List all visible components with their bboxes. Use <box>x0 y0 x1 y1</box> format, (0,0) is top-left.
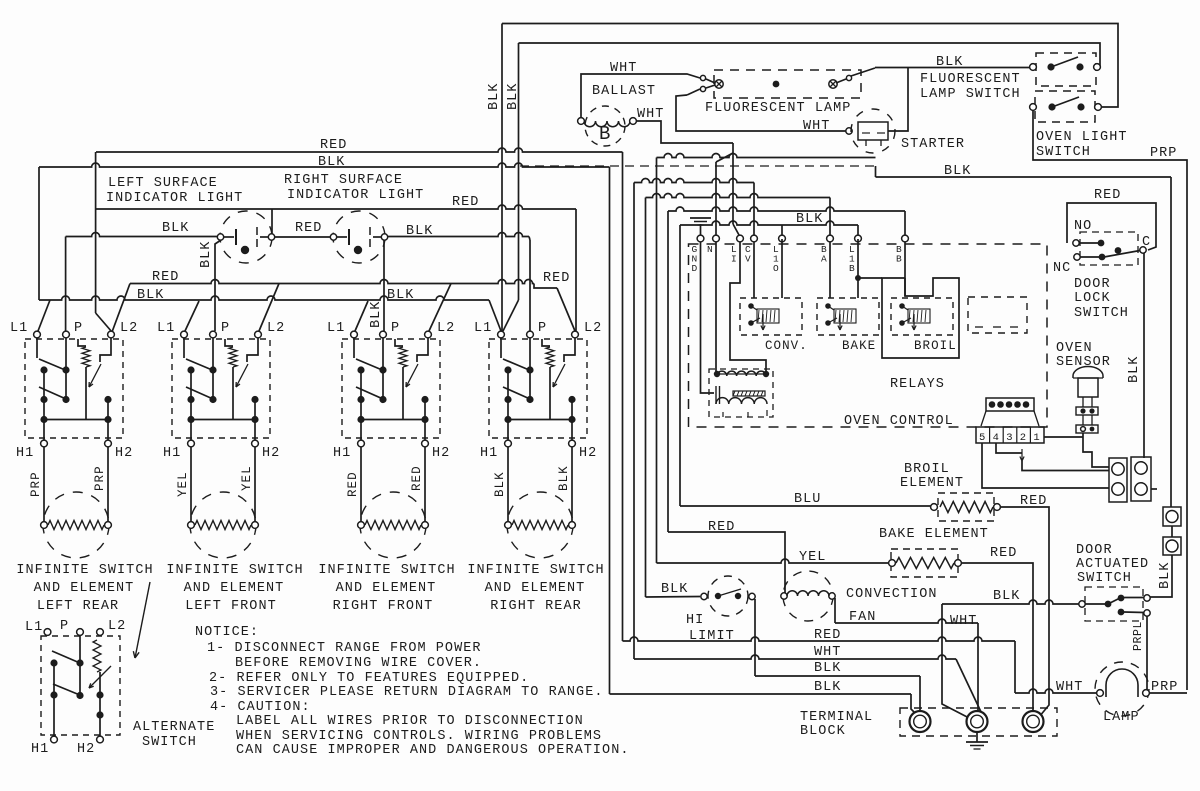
left long verticals <box>609 167 611 694</box>
svg-text:RED: RED <box>295 221 322 236</box>
svg-text:DOOR: DOOR <box>1074 277 1111 292</box>
svg-text:BLK: BLK <box>814 680 841 695</box>
svg-text:L1: L1 <box>157 321 175 336</box>
svg-text:SWITCH: SWITCH <box>1074 306 1129 321</box>
svg-text:TERMINAL: TERMINAL <box>800 710 873 725</box>
svg-text:BLK: BLK <box>387 288 414 303</box>
wire BLK from C down to connector <box>1143 253 1145 458</box>
lamp left pin <box>700 75 705 80</box>
svg-text:WHT: WHT <box>1056 680 1083 695</box>
wire RED from broil element down to stud3 <box>1000 507 1049 717</box>
oven lamp <box>1095 662 1149 716</box>
wire BLK vertical x=1171 down right side <box>1170 177 1172 507</box>
svg-text:RELAYS: RELAYS <box>890 377 945 392</box>
svg-text:LEFT FRONT: LEFT FRONT <box>185 599 277 614</box>
svg-text:B: B <box>896 254 902 265</box>
svg-text:AND ELEMENT: AND ELEMENT <box>336 581 437 596</box>
wire WHT to lamp <box>1014 641 1016 693</box>
svg-text:V: V <box>745 254 751 265</box>
svg-text:WHEN SERVICING CONTROLS. WIRIN: WHEN SERVICING CONTROLS. WIRING PROBLEMS <box>236 729 602 744</box>
svg-text:L2: L2 <box>120 321 138 336</box>
wire from right block <box>1151 488 1157 490</box>
wire L1O stub <box>781 225 783 235</box>
svg-text:O: O <box>773 263 779 274</box>
wire fan right to stud2 <box>834 598 836 623</box>
svg-text:INFINITE SWITCH: INFINITE SWITCH <box>16 563 153 578</box>
svg-text:H1: H1 <box>31 742 49 757</box>
transformer <box>714 371 720 377</box>
svg-text:CONV.: CONV. <box>765 339 808 353</box>
svg-text:4: 4 <box>993 432 999 444</box>
svg-text:B: B <box>849 263 855 274</box>
svg-text:BEFORE REMOVING WIRE COVER.: BEFORE REMOVING WIRE COVER. <box>235 656 482 671</box>
sensor connector 2 <box>1082 415 1084 425</box>
fluorescent lamp dashed tube <box>714 70 861 98</box>
svg-text:PRP: PRP <box>1151 680 1178 695</box>
svg-text:BLK: BLK <box>369 301 384 328</box>
door actuated switch <box>1085 587 1143 621</box>
diagonal BLK bus to L1 left rear <box>38 300 50 331</box>
svg-text:NO: NO <box>1074 219 1092 234</box>
broil relay solid box <box>882 278 959 358</box>
svg-text:BLK: BLK <box>557 465 571 491</box>
wire PRP from oven light switch down right side <box>1033 110 1187 690</box>
fluorescent lamp switch <box>1036 53 1096 86</box>
svg-text:2: 2 <box>1020 432 1026 444</box>
svg-text:A: A <box>821 254 827 265</box>
oven control terminal L1B <box>855 235 862 242</box>
wire BLK to door actuated switch <box>1150 555 1172 597</box>
wire T2 BLK feed to fluorescent lamp switch <box>519 43 1101 67</box>
wire BLU to broil element <box>680 505 931 507</box>
svg-text:BLK: BLK <box>506 83 521 110</box>
arrow from LEFT REAR text to alternate switch <box>135 582 150 658</box>
connector block pair <box>1109 458 1127 502</box>
diagonal 95.6 to L2 left rear <box>96 313 112 332</box>
terminal block stud x=977 <box>967 711 988 732</box>
oven control terminal LI <box>737 235 744 242</box>
wire BLK riser left indicator to P left-front <box>215 240 221 331</box>
svg-text:C: C <box>1142 235 1151 250</box>
svg-text:H2: H2 <box>432 446 450 461</box>
wire LI to transformer <box>730 242 766 372</box>
wire funnel row y=197.5 to BA <box>646 194 831 198</box>
ballast B <box>585 106 625 146</box>
ground symbol at GND terminal <box>700 224 702 235</box>
diagonal RED bus to L2 left front <box>259 284 279 332</box>
svg-text:RIGHT FRONT: RIGHT FRONT <box>333 599 434 614</box>
svg-text:RED: RED <box>410 465 424 491</box>
wire L1B into bake relay <box>857 239 859 298</box>
terminal block stud x=1033 <box>1023 711 1044 732</box>
svg-text:FLUORESCENT: FLUORESCENT <box>920 72 1021 87</box>
wire diagonal from riser 518.5 to L1 right rear <box>503 300 519 331</box>
svg-text:L2: L2 <box>437 321 455 336</box>
wire BB into broil relay <box>904 242 906 296</box>
svg-text:P: P <box>538 321 547 336</box>
svg-text:P: P <box>391 321 400 336</box>
sensor connector 1 <box>1082 397 1084 407</box>
svg-text:RED: RED <box>814 628 841 643</box>
svg-text:SWITCH: SWITCH <box>1036 145 1091 160</box>
diagonal RED bus end to L2 left rear <box>112 284 130 333</box>
svg-text:ELEMENT: ELEMENT <box>900 476 964 491</box>
convection fan <box>783 571 833 621</box>
ground below stud2 <box>976 732 978 742</box>
svg-text:1: 1 <box>1033 432 1039 444</box>
wire dashed cabinet line y=166 <box>520 165 876 167</box>
svg-text:3- SERVICER PLEASE RETURN DIAG: 3- SERVICER PLEASE RETURN DIAGRAM TO RAN… <box>210 685 604 700</box>
oven control terminal CV <box>751 235 758 242</box>
lamp centre dot <box>773 81 780 88</box>
svg-text:I: I <box>731 254 737 265</box>
oven control dashed box <box>689 244 1048 427</box>
svg-text:L2: L2 <box>584 321 602 336</box>
svg-text:BLK: BLK <box>1158 562 1173 589</box>
svg-text:RED: RED <box>543 271 570 286</box>
svg-text:SWITCH: SWITCH <box>1077 571 1132 586</box>
sensor wires to connector blocks <box>1083 433 1109 467</box>
svg-text:YEL: YEL <box>240 465 254 491</box>
svg-text:5: 5 <box>979 432 985 444</box>
diagonal BLK bus end to L1 right rear <box>489 300 501 331</box>
svg-text:BLK: BLK <box>944 164 971 179</box>
wire vertical x=39 from BLK y=167 to BLK bus <box>38 167 40 300</box>
svg-text:L2: L2 <box>267 321 285 336</box>
element below switch x=354 <box>360 447 362 521</box>
infinite switch at x=501 <box>498 331 505 338</box>
wire from hi-limit down to BLK y=676 <box>754 599 756 676</box>
riser P left-rear <box>65 237 67 332</box>
svg-text:L1: L1 <box>25 620 43 635</box>
wire GND to transformer <box>701 242 715 393</box>
wire lamp right to PRP <box>1149 692 1187 694</box>
wire N to transformer <box>715 242 717 372</box>
svg-text:FLUORESCENT LAMP: FLUORESCENT LAMP <box>705 101 851 116</box>
svg-text:RED: RED <box>708 520 735 535</box>
alternate switch <box>44 629 51 636</box>
diagonal BLK bus to L1 right front <box>355 301 368 331</box>
left surface indicator light <box>220 211 272 263</box>
svg-text:RED: RED <box>990 546 1017 561</box>
terminal strip 5 4 3 2 1 <box>976 427 1044 443</box>
wire BLK bottom y=676 <box>755 675 920 677</box>
svg-text:RIGHT REAR: RIGHT REAR <box>490 599 582 614</box>
wire BLK from P left-rear to left indicator <box>66 233 217 237</box>
infinite switch at x=184 <box>181 331 188 338</box>
svg-text:PRP: PRP <box>29 471 43 497</box>
stud2 riser <box>942 604 971 719</box>
oven light switch <box>1035 91 1095 122</box>
wire funnel row y=157.5 from x=656.5 to BLK y=177 <box>657 154 876 158</box>
oven control terminal BB <box>902 235 909 242</box>
svg-text:BLU: BLU <box>794 492 821 507</box>
svg-text:BLK: BLK <box>199 241 214 268</box>
svg-text:INFINITE SWITCH: INFINITE SWITCH <box>467 563 604 578</box>
svg-text:WHT: WHT <box>814 645 841 660</box>
oven control terminal L1O <box>779 235 786 242</box>
svg-text:P: P <box>221 321 230 336</box>
empty relay dashed box <box>968 297 1027 333</box>
hi limit switch <box>708 576 748 616</box>
svg-text:BLK: BLK <box>796 212 823 227</box>
svg-text:BLK: BLK <box>1127 356 1142 383</box>
svg-text:BLK: BLK <box>661 582 688 597</box>
oven control terminal N <box>713 235 720 242</box>
svg-text:L2: L2 <box>108 619 126 634</box>
relay BROIL <box>891 298 953 335</box>
wire BA into bake relay <box>829 242 831 298</box>
svg-text:INFINITE SWITCH: INFINITE SWITCH <box>318 563 455 578</box>
svg-text:CAN CAUSE IMPROPER AND DANGERO: CAN CAUSE IMPROPER AND DANGEROUS OPERATI… <box>236 743 630 758</box>
wire door switch to lamp <box>1146 616 1148 690</box>
svg-text:LAMP: LAMP <box>1103 710 1140 725</box>
terminal block stud x=920 <box>910 711 931 732</box>
strip wires to connectors <box>996 443 1022 453</box>
svg-text:BAKE: BAKE <box>842 339 876 353</box>
bake element <box>891 549 958 577</box>
svg-text:L1: L1 <box>10 321 28 336</box>
svg-text:AND ELEMENT: AND ELEMENT <box>485 581 586 596</box>
svg-text:ACTUATED: ACTUATED <box>1076 557 1149 572</box>
svg-text:SWITCH: SWITCH <box>142 735 197 750</box>
wire BLK bus y=300 <box>39 296 489 300</box>
svg-text:RIGHT SURFACE: RIGHT SURFACE <box>284 173 403 188</box>
starter <box>846 128 852 134</box>
wire funnel row y=182.5 to CV <box>634 179 754 183</box>
wire L1O into conv relay <box>781 239 783 298</box>
svg-text:AND ELEMENT: AND ELEMENT <box>34 581 135 596</box>
wire WHT bottom y=659 <box>634 655 956 659</box>
wire vertical BLK riser x=518.5 <box>518 43 520 300</box>
svg-text:DOOR: DOOR <box>1076 543 1113 558</box>
svg-text:WHT: WHT <box>637 107 664 122</box>
element below switch x=501 <box>507 447 509 521</box>
svg-text:YEL: YEL <box>176 471 190 497</box>
wire funnel row y=211 to BB <box>668 207 905 211</box>
diagonal RED bus to L2 right front <box>429 284 451 332</box>
wire BLK from right indicator to P right-rear <box>388 233 529 237</box>
svg-text:LEFT REAR: LEFT REAR <box>37 599 119 614</box>
svg-text:BALLAST: BALLAST <box>592 84 656 99</box>
wire BLK bottom y=694 <box>610 693 912 695</box>
svg-text:RED: RED <box>452 195 479 210</box>
svg-text:4- CAUTION:: 4- CAUTION: <box>210 700 311 715</box>
RED bus end jog to L2 right rear <box>534 284 557 289</box>
wire BLK y=177 to right side <box>875 166 877 177</box>
svg-text:INDICATOR LIGHT: INDICATOR LIGHT <box>287 188 424 203</box>
5 pin connector <box>986 398 1034 411</box>
wire BLK main y=167 <box>39 163 610 167</box>
svg-text:AND ELEMENT: AND ELEMENT <box>184 581 285 596</box>
broil element <box>938 493 994 521</box>
svg-text:OVEN CONTROL: OVEN CONTROL <box>844 414 954 429</box>
svg-text:BROIL: BROIL <box>914 339 957 353</box>
svg-text:BLK: BLK <box>493 471 507 497</box>
svg-text:RED: RED <box>320 138 347 153</box>
svg-text:BLK: BLK <box>162 221 189 236</box>
svg-text:INDICATOR LIGHT: INDICATOR LIGHT <box>106 191 243 206</box>
wire RED between indicators <box>275 236 331 238</box>
svg-text:L1: L1 <box>327 321 345 336</box>
door lock switch RED box <box>1067 203 1156 250</box>
wire vertical x=95.6 riser <box>95 152 97 313</box>
svg-text:OVEN: OVEN <box>1056 341 1093 356</box>
svg-text:LEFT SURFACE: LEFT SURFACE <box>108 176 218 191</box>
svg-text:WHT: WHT <box>803 119 830 134</box>
wire WHT ballast right lead <box>636 121 733 143</box>
svg-text:2- REFER ONLY TO FEATURES EQUI: 2- REFER ONLY TO FEATURES EQUIPPED. <box>209 671 529 686</box>
svg-text:BROIL: BROIL <box>904 462 950 477</box>
svg-text:BLOCK: BLOCK <box>800 724 846 739</box>
svg-text:LABEL ALL WIRES PRIOR TO DISCO: LABEL ALL WIRES PRIOR TO DISCONNECTION <box>236 714 584 729</box>
element below switch x=184 <box>190 447 192 521</box>
svg-text:BAKE ELEMENT: BAKE ELEMENT <box>879 527 989 542</box>
svg-text:H2: H2 <box>579 446 597 461</box>
relay CONV. <box>740 298 802 335</box>
svg-text:N: N <box>707 244 713 255</box>
svg-text:3: 3 <box>1006 432 1012 444</box>
svg-text:P: P <box>74 321 83 336</box>
svg-text:RED: RED <box>152 270 179 285</box>
junction dot L1B branch <box>855 275 861 281</box>
wire starter right lead up to BLK y=67 <box>888 67 908 131</box>
svg-text:OVEN LIGHT: OVEN LIGHT <box>1036 130 1128 145</box>
svg-text:D: D <box>692 263 698 274</box>
svg-text:H2: H2 <box>262 446 280 461</box>
svg-text:NC: NC <box>1053 261 1071 276</box>
lamp right pin <box>829 80 837 88</box>
wire BLK y=604 from stud2 riser to door actuated switch <box>942 600 1081 604</box>
wire RED from bake element down to stud3 <box>961 563 1033 717</box>
svg-text:PRPL: PRPL <box>1132 621 1145 651</box>
svg-text:LOCK: LOCK <box>1074 291 1111 306</box>
oven control terminal BA <box>827 235 834 242</box>
svg-text:H1: H1 <box>333 446 351 461</box>
svg-text:RED: RED <box>1094 188 1121 203</box>
svg-text:CONVECTION: CONVECTION <box>846 587 938 602</box>
oven control terminal GND <box>697 235 704 242</box>
inline connector squares on BLK <box>1163 507 1181 526</box>
wire lamp right to BLK line <box>851 68 875 76</box>
wire T1 top BLK feed to oven light switch <box>502 24 1118 108</box>
svg-text:P: P <box>60 619 69 634</box>
svg-text:LAMP SWITCH: LAMP SWITCH <box>920 87 1021 102</box>
wire RED main y=152 <box>96 148 623 152</box>
oven sensor <box>1073 367 1103 379</box>
svg-text:H1: H1 <box>480 446 498 461</box>
diagonal BLK bus to L1 left front <box>185 301 199 331</box>
svg-text:L1: L1 <box>474 321 492 336</box>
svg-text:PRP: PRP <box>93 465 107 491</box>
terminal block dashed box <box>900 708 1057 736</box>
svg-text:NOTICE:: NOTICE: <box>195 625 259 640</box>
svg-text:RED: RED <box>346 471 360 497</box>
wire BLK riser right indicator to P right-front <box>383 240 385 331</box>
svg-text:INFINITE SWITCH: INFINITE SWITCH <box>166 563 303 578</box>
svg-text:BLK: BLK <box>487 83 502 110</box>
infinite switch at x=37 <box>34 331 41 338</box>
svg-text:BLK: BLK <box>814 661 841 676</box>
svg-text:BLK: BLK <box>936 55 963 70</box>
infinite switch at x=354 <box>351 331 358 338</box>
svg-text:BLK: BLK <box>318 155 345 170</box>
svg-text:H2: H2 <box>77 742 95 757</box>
wire BLK line y=67 to fluorescent lamp switch <box>875 67 1030 69</box>
svg-text:BLK: BLK <box>137 288 164 303</box>
svg-text:HI: HI <box>686 613 704 628</box>
svg-text:BLK: BLK <box>406 224 433 239</box>
wire WHT from ballast to lamp left pins <box>581 74 700 118</box>
svg-text:BLK: BLK <box>993 589 1020 604</box>
svg-text:SENSOR: SENSOR <box>1056 355 1111 370</box>
element below switch x=37 <box>43 447 45 521</box>
wire RED bottom y=641 <box>623 637 1016 641</box>
wire YEL to bake element <box>657 559 890 563</box>
svg-text:PRP: PRP <box>1150 146 1177 161</box>
wire BLK to hi-limit <box>646 596 701 599</box>
riser from left indicator to RED y=209 <box>271 209 273 234</box>
svg-text:YEL: YEL <box>799 550 826 565</box>
wire RED y=532 to convection fan <box>668 532 785 593</box>
svg-text:H1: H1 <box>163 446 181 461</box>
wire vertical BLK riser x=502 to L1 of right-rear switch <box>501 24 503 332</box>
svg-text:H2: H2 <box>115 446 133 461</box>
wire RED bus y=283 <box>130 280 534 284</box>
svg-text:STARTER: STARTER <box>901 137 965 152</box>
svg-text:WHT: WHT <box>950 614 977 629</box>
svg-text:ALTERNATE: ALTERNATE <box>133 720 215 735</box>
door lock switch contacts <box>1080 232 1138 265</box>
right surface indicator light <box>333 211 385 263</box>
svg-text:H1: H1 <box>16 446 34 461</box>
relay BAKE <box>817 298 879 335</box>
wire funnel row y=225 to L1B <box>680 221 858 225</box>
wire RED y=209 line to L2 right rear <box>96 205 576 209</box>
svg-text:1- DISCONNECT RANGE FROM POWER: 1- DISCONNECT RANGE FROM POWER <box>207 641 482 656</box>
wire WHT down x=733 and Y-split <box>732 143 734 224</box>
wire CV into conv relay <box>753 242 755 298</box>
